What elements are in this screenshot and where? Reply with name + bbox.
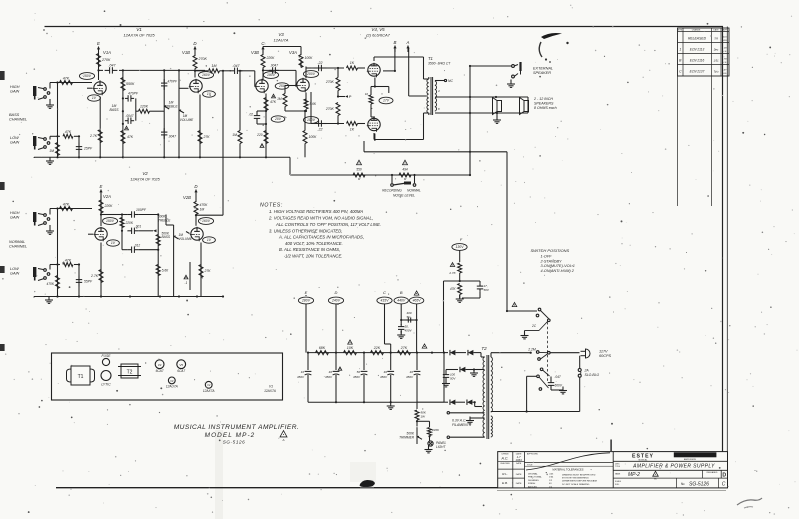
wire ch1 input bus bbox=[57, 83, 59, 158]
svg-text:400 VOLT, 10% TOLERANCE.: 400 VOLT, 10% TOLERANCE. bbox=[285, 241, 343, 246]
transformer T2 core bbox=[487, 355, 489, 439]
svg-text:1M: 1M bbox=[200, 208, 205, 212]
svg-text:12AU7A: 12AU7A bbox=[274, 38, 289, 43]
label 117V 60CPS bbox=[599, 350, 611, 359]
tube V5 chassis bbox=[177, 360, 186, 373]
svg-text:40: 40 bbox=[384, 370, 388, 374]
wire top border line bbox=[45, 26, 724, 28]
svg-text:220K: 220K bbox=[266, 56, 276, 60]
svg-text:NORMAL: NORMAL bbox=[9, 240, 25, 244]
voltage oval D 240V bbox=[328, 297, 343, 353]
label high gain ch2 bbox=[10, 211, 20, 220]
wire T2 filament tap2 bbox=[447, 436, 484, 438]
ground ch1 rail bbox=[34, 157, 54, 164]
svg-text:240V: 240V bbox=[331, 299, 341, 303]
node F letter bbox=[460, 238, 463, 242]
wire ch2 row1 to treble bbox=[139, 214, 159, 216]
resistor 27K rail bbox=[398, 346, 411, 355]
svg-text:BY ESTEY ENGINEERING: BY ESTEY ENGINEERING bbox=[562, 478, 589, 480]
svg-text:415V: 415V bbox=[381, 299, 390, 303]
tube V2B bbox=[183, 195, 203, 241]
triangle note sw bbox=[512, 302, 517, 306]
svg-text:470PF: 470PF bbox=[168, 80, 178, 84]
svg-text:MATERIAL TOLERANCES: MATERIAL TOLERANCES bbox=[553, 467, 584, 471]
capacitor .22 lower bbox=[314, 120, 327, 131]
node C letter bbox=[383, 290, 386, 295]
scan left edge marks bbox=[0, 71, 5, 351]
voltage oval B 440V bbox=[394, 297, 408, 324]
triangle note tone bbox=[125, 126, 129, 130]
svg-text:2.7K: 2.7K bbox=[89, 134, 98, 138]
tube V4 V5 header bbox=[366, 27, 391, 38]
svg-text:DATE: DATE bbox=[516, 462, 522, 465]
resistor 2.7K V2A cathode bbox=[90, 270, 103, 283]
resistor 1M V3 grid bbox=[232, 70, 242, 158]
ground filament center tap bbox=[466, 417, 485, 424]
svg-text:AMPLIFIERS: AMPLIFIERS bbox=[684, 458, 697, 461]
svg-text:3. UNLESS OTHERWISE INDICATED: 3. UNLESS OTHERWISE INDICATED, bbox=[269, 228, 343, 233]
svg-text:LS: LS bbox=[724, 51, 727, 53]
svg-text:V3A: V3A bbox=[289, 50, 297, 55]
title block grid bbox=[498, 452, 728, 488]
resistor 27K V1B cathode bbox=[198, 131, 210, 144]
wire V5 plate to T1 bbox=[374, 113, 429, 140]
svg-text:BASS: BASS bbox=[109, 108, 119, 112]
wire bias feed from rail bbox=[444, 281, 460, 353]
label 2C bbox=[531, 324, 537, 328]
svg-text:V4: V4 bbox=[158, 363, 162, 367]
jack J2 low gain bbox=[33, 136, 50, 150]
svg-text:EXTERNAL: EXTERNAL bbox=[533, 67, 553, 71]
capacitor .0047 treble bottom bbox=[161, 128, 176, 139]
svg-text:12AU7A: 12AU7A bbox=[166, 385, 178, 389]
label bass channel bbox=[9, 113, 27, 122]
svg-text:DO NOT SCALE DRAWING: DO NOT SCALE DRAWING bbox=[562, 483, 590, 486]
wire V3B plate junction bbox=[262, 68, 264, 80]
label T1 value bbox=[428, 56, 451, 66]
wire volume to V1B grid bbox=[179, 87, 189, 89]
svg-text:130V: 130V bbox=[456, 245, 465, 249]
resistor 5.6K V3A cathode bbox=[304, 99, 317, 111]
switch pole mains bbox=[536, 351, 550, 361]
transformer T2 label bbox=[481, 346, 487, 351]
wire feedback lower line bbox=[290, 174, 470, 176]
node D supply V2B bbox=[194, 184, 198, 196]
wire T1 NC tap bbox=[435, 79, 453, 83]
svg-text:SG-5126: SG-5126 bbox=[689, 481, 709, 487]
wire V1B cathode bbox=[199, 95, 201, 158]
svg-text:2 - 12 INCH: 2 - 12 INCH bbox=[533, 97, 553, 101]
svg-text:60CPS: 60CPS bbox=[599, 354, 611, 358]
scan line under title block bbox=[497, 490, 726, 492]
svg-text:27K: 27K bbox=[204, 269, 212, 273]
svg-text:494: 494 bbox=[402, 168, 408, 172]
svg-text:NOTES:: NOTES: bbox=[260, 203, 283, 209]
scan mark bottom right bbox=[737, 498, 762, 508]
svg-text:V3: V3 bbox=[278, 32, 284, 37]
svg-text:3-ON(MUTE)-VOL 1: 3-ON(MUTE)-VOL 1 bbox=[541, 264, 575, 268]
ground switch bbox=[521, 331, 540, 339]
svg-text:ES: ES bbox=[724, 73, 727, 75]
label low gain ch2 bbox=[10, 267, 20, 276]
svg-text:120K: 120K bbox=[140, 105, 149, 109]
svg-text:1K: 1K bbox=[350, 61, 355, 65]
wire V4 cathode stub bbox=[374, 78, 389, 94]
capacitor .1 V2B bypass bbox=[184, 262, 190, 290]
fuse chassis bbox=[101, 354, 111, 366]
svg-text:600V: 600V bbox=[555, 384, 563, 388]
capacitor .047 ch1 bbox=[105, 64, 118, 74]
svg-text:LOW: LOW bbox=[10, 267, 19, 271]
transformer T1 chassis bbox=[67, 366, 95, 385]
speaker SP1 bbox=[493, 98, 502, 115]
voltage oval 150V V1A bbox=[79, 73, 94, 80]
svg-text:(2) 6L6/6CA7: (2) 6L6/6CA7 bbox=[366, 33, 391, 38]
node D supply V1B bbox=[193, 41, 197, 53]
voltage oval A 465V bbox=[409, 297, 423, 353]
node J1 wire junction bbox=[56, 81, 58, 83]
svg-text:V2A: V2A bbox=[103, 194, 111, 199]
svg-text:TITLE: TITLE bbox=[615, 466, 621, 468]
svg-text:P: P bbox=[349, 95, 352, 99]
tube V1A bbox=[93, 50, 111, 95]
wire V3A cathode bbox=[305, 93, 307, 113]
wire treble column bbox=[163, 69, 165, 157]
node hum junction bbox=[416, 420, 418, 422]
svg-text:C: C bbox=[722, 482, 726, 488]
svg-text:47K: 47K bbox=[63, 77, 70, 81]
resistor 47K V3B cathode bbox=[264, 98, 277, 111]
svg-text:1/64: 1/64 bbox=[549, 477, 554, 479]
svg-text:HIGH: HIGH bbox=[10, 85, 20, 89]
svg-text:1V: 1V bbox=[207, 92, 212, 96]
transformer T1 primary bbox=[427, 77, 429, 115]
wire tone loop right bbox=[135, 98, 137, 120]
svg-text:V1: V1 bbox=[269, 385, 273, 389]
svg-text:22K: 22K bbox=[373, 346, 381, 350]
wire cathode rail jog bbox=[289, 157, 291, 175]
wire F stem bbox=[459, 251, 461, 263]
wire V2A plate line bbox=[100, 213, 117, 215]
potentiometer 1M volume ch2 bbox=[166, 215, 193, 242]
svg-text:450V: 450V bbox=[353, 375, 361, 379]
svg-text:SLO-BLO: SLO-BLO bbox=[585, 373, 600, 377]
svg-text:D: D bbox=[193, 41, 197, 46]
wire E to V2A plate bbox=[100, 196, 102, 226]
tube V3 header bbox=[274, 32, 289, 43]
svg-text:100K: 100K bbox=[305, 56, 314, 60]
diode rectifier D4 bbox=[444, 399, 460, 404]
svg-text:47K: 47K bbox=[127, 135, 134, 139]
resistor 220K tone ch2 bbox=[120, 218, 134, 228]
svg-text:20V: 20V bbox=[274, 117, 282, 121]
resistor 120K tone bbox=[136, 105, 164, 114]
svg-text:V3B: V3B bbox=[251, 50, 259, 55]
svg-text:SPEAKERS: SPEAKERS bbox=[534, 102, 554, 106]
wire V1A plate coupling line bbox=[97, 69, 123, 71]
wire switch ground link bbox=[525, 330, 540, 332]
svg-text:NOISE LEVEL: NOISE LEVEL bbox=[393, 194, 415, 198]
label 1M treble pot bbox=[164, 101, 178, 109]
resistor 100K V3A tail bbox=[303, 110, 317, 157]
svg-text:TRIMMER: TRIMMER bbox=[399, 436, 415, 440]
diode rectifier D3 bbox=[446, 367, 481, 372]
capacitor .02 V3 bbox=[249, 110, 268, 125]
svg-text:A: A bbox=[406, 40, 410, 45]
capacitor .047 to V3 bbox=[230, 64, 243, 74]
ground bias bbox=[456, 295, 464, 302]
tube V1 chassis bbox=[264, 385, 276, 394]
switch arm upper bbox=[539, 319, 550, 331]
svg-text:27K: 27K bbox=[400, 346, 408, 350]
tube V4 output bbox=[367, 63, 380, 77]
scan small mark top left bbox=[43, 29, 48, 34]
svg-text:LS: LS bbox=[724, 62, 727, 64]
svg-text:RELEASED: RELEASED bbox=[707, 471, 718, 474]
svg-text:220K: 220K bbox=[104, 204, 114, 208]
capacitor filter C5 bbox=[406, 353, 420, 403]
wire ch2 volume column bbox=[173, 225, 175, 297]
wire J2 to bus bbox=[50, 136, 60, 139]
node C supply V3 bbox=[261, 41, 265, 53]
resistor 10 ohm cathode bbox=[365, 87, 375, 112]
svg-text:V1B: V1B bbox=[182, 50, 190, 55]
svg-text:450V: 450V bbox=[325, 375, 333, 379]
svg-text:2A: 2A bbox=[584, 369, 590, 373]
wire plug to fuse bbox=[579, 356, 581, 369]
svg-text:220K: 220K bbox=[431, 428, 440, 432]
voltage oval F 130V bbox=[452, 244, 467, 251]
svg-text:E: E bbox=[305, 290, 308, 295]
ground speakers bbox=[493, 113, 501, 123]
svg-text:T2: T2 bbox=[127, 370, 133, 376]
svg-text:47K: 47K bbox=[63, 203, 70, 207]
label normal channel bbox=[9, 240, 27, 249]
svg-text:BASS: BASS bbox=[162, 235, 171, 239]
svg-text:4: 4 bbox=[438, 89, 440, 93]
wire ch2 row2 arrow bbox=[139, 229, 157, 232]
wire V3A output upper bbox=[306, 67, 344, 69]
wire ch2 volume to V2B grid bbox=[186, 232, 190, 234]
svg-text:200V: 200V bbox=[306, 72, 316, 76]
svg-text:.22: .22 bbox=[317, 61, 322, 65]
svg-text:550K: 550K bbox=[126, 82, 135, 86]
drawing title text bbox=[174, 424, 300, 445]
resistor 68K rail bbox=[316, 346, 329, 355]
label 2.2M bbox=[527, 348, 536, 352]
svg-text:465V: 465V bbox=[413, 299, 422, 303]
wire right border inner line bbox=[726, 27, 728, 452]
svg-text:DRAWING MUST BE APPROVED: DRAWING MUST BE APPROVED bbox=[562, 473, 596, 476]
wire B+ rail bbox=[308, 352, 444, 354]
node A letter triangle bbox=[414, 291, 419, 295]
ground jack J1 bbox=[46, 99, 54, 108]
svg-text:1W: 1W bbox=[421, 415, 427, 419]
resistor 47K bias bbox=[450, 284, 462, 299]
wire right border line bbox=[722, 27, 724, 452]
svg-text:ECN 2137: ECN 2137 bbox=[690, 70, 705, 74]
svg-text:3500· 8/4Ω CT: 3500· 8/4Ω CT bbox=[428, 62, 451, 66]
diode rectifier D2 bbox=[462, 350, 481, 357]
svg-text:.005: .005 bbox=[549, 474, 554, 476]
svg-text:10: 10 bbox=[365, 92, 369, 96]
svg-text:50V: 50V bbox=[450, 377, 456, 381]
svg-text:6.3V A.C.: 6.3V A.C. bbox=[452, 419, 466, 423]
wire ch1 ground rail bbox=[34, 156, 290, 158]
svg-text:160V: 160V bbox=[202, 219, 211, 223]
svg-text:12AX7A OF 7025: 12AX7A OF 7025 bbox=[123, 33, 155, 38]
voltage oval 20V V3B bbox=[271, 116, 285, 122]
wire speaker sw feed bbox=[506, 310, 537, 312]
potentiometer 1M volume ch1 bbox=[179, 109, 194, 122]
svg-text:47K: 47K bbox=[65, 130, 72, 134]
lytic capacitor chassis bbox=[101, 371, 111, 387]
wire T2 HV top bbox=[481, 356, 485, 358]
svg-text:8 OHMS each: 8 OHMS each bbox=[534, 106, 557, 110]
svg-text:SCALE: SCALE bbox=[615, 480, 622, 483]
plug 117V bbox=[580, 349, 590, 358]
svg-text:220K: 220K bbox=[125, 221, 134, 225]
svg-text:4-ON(ANTI-HUM) 2: 4-ON(ANTI-HUM) 2 bbox=[541, 269, 575, 273]
voltage oval E 280V bbox=[298, 297, 313, 353]
resistor 220K V2A plate bbox=[99, 200, 113, 213]
svg-text:.047: .047 bbox=[233, 64, 241, 68]
tube V1 header bbox=[123, 27, 155, 38]
svg-text:6CA7: 6CA7 bbox=[177, 369, 185, 373]
svg-text:W.E: W.E bbox=[723, 40, 728, 42]
svg-text:220: 220 bbox=[256, 133, 263, 137]
resistor 47K tone lower bbox=[121, 131, 134, 144]
resistor 220K V3B plate bbox=[261, 55, 275, 68]
wire V4 plate to T1 bbox=[374, 57, 429, 79]
resistor 550 feedback bbox=[353, 160, 365, 181]
voltage oval 25V V3B bbox=[275, 83, 289, 89]
transformer T2 secondary winding bbox=[483, 357, 485, 437]
resistor 1M V1B coupling bbox=[209, 64, 232, 73]
wire cap column bbox=[74, 136, 79, 157]
svg-text:V1: V1 bbox=[136, 27, 142, 32]
svg-text:1M: 1M bbox=[277, 97, 282, 101]
svg-text:1M: 1M bbox=[232, 133, 237, 137]
capacitor 470PF tone loop bbox=[125, 92, 139, 102]
revision table bbox=[678, 28, 730, 76]
resistor 220 V3B bias bbox=[256, 131, 268, 144]
svg-text:V2: V2 bbox=[142, 171, 148, 176]
wire T2 primary top bbox=[491, 353, 531, 357]
wire ch2 middle column bbox=[157, 213, 159, 296]
svg-text:47K: 47K bbox=[450, 287, 457, 291]
svg-text:ECN 2116: ECN 2116 bbox=[690, 59, 705, 63]
resistor 2.7K bias bbox=[448, 263, 461, 281]
wire V1A cathode bbox=[99, 97, 101, 158]
potentiometer 500K trimmer bbox=[399, 421, 430, 444]
svg-text:270K: 270K bbox=[101, 58, 111, 62]
switch mechanical dashed link bbox=[546, 322, 548, 382]
svg-text:W: W bbox=[404, 177, 407, 181]
svg-text:6CA7: 6CA7 bbox=[156, 369, 164, 373]
svg-text:25PF: 25PF bbox=[83, 147, 93, 151]
svg-text:47K: 47K bbox=[270, 100, 277, 104]
wire V3B cathode bbox=[265, 94, 267, 158]
svg-text:2C: 2C bbox=[531, 324, 537, 328]
svg-text:V4, V5: V4, V5 bbox=[371, 27, 385, 32]
wire V2B cathode bbox=[200, 243, 202, 297]
label filaments bbox=[452, 419, 472, 428]
node lower diode junction bbox=[444, 353, 482, 407]
svg-text:50V: 50V bbox=[484, 288, 490, 292]
svg-text:270K: 270K bbox=[325, 80, 335, 84]
svg-text:GAIN: GAIN bbox=[10, 90, 20, 94]
svg-text:№: № bbox=[681, 482, 685, 486]
svg-text:100K: 100K bbox=[309, 135, 318, 139]
svg-text:CHANNEL: CHANNEL bbox=[9, 118, 27, 122]
wire T1 secondary low tap bbox=[435, 107, 528, 113]
transformer T1 secondary bbox=[435, 81, 437, 111]
wire feedback corner bbox=[469, 151, 471, 176]
svg-text:190V: 190V bbox=[267, 73, 276, 77]
resistor 470K ch2 bus bbox=[47, 276, 60, 289]
node noise switch taps bbox=[391, 174, 416, 176]
wire filter bottom rail bbox=[308, 401, 417, 403]
svg-text:CHANGE: CHANGE bbox=[692, 29, 701, 32]
svg-text:SWITCH POSITIONS: SWITCH POSITIONS bbox=[531, 248, 570, 253]
svg-text:C: C bbox=[679, 70, 682, 74]
tube V3A bbox=[289, 50, 309, 92]
svg-text:E.B.: E.B. bbox=[502, 481, 508, 485]
svg-text:550: 550 bbox=[356, 168, 362, 172]
svg-text:A.C.: A.C. bbox=[501, 457, 509, 461]
svg-text:1964: 1964 bbox=[515, 458, 522, 462]
resistor 470K V2B plate bbox=[194, 202, 208, 215]
wire V3A output lower bbox=[311, 92, 344, 124]
wire revision column left line bbox=[677, 76, 679, 206]
capacitor .001 ch2 loop bbox=[128, 224, 142, 234]
potentiometer treble wiper bbox=[164, 105, 169, 109]
svg-text:450V: 450V bbox=[297, 375, 305, 379]
wire T2 filament tap1 bbox=[447, 412, 484, 414]
label 500K treble ch2 bbox=[158, 215, 171, 223]
tube V2A bbox=[94, 194, 111, 241]
label low gain ch1 bbox=[10, 136, 20, 145]
transformer T1 core bbox=[431, 77, 433, 115]
svg-text:D: D bbox=[335, 290, 338, 295]
svg-text:TREBLE: TREBLE bbox=[158, 218, 171, 222]
tube V4 chassis bbox=[155, 360, 164, 373]
wire switch to plug bbox=[550, 352, 580, 354]
svg-text:.001: .001 bbox=[135, 224, 141, 228]
svg-text:1V: 1V bbox=[111, 241, 116, 245]
transformer T2 primary winding bbox=[491, 357, 493, 437]
svg-text:150V: 150V bbox=[83, 74, 92, 78]
switch positions note bbox=[531, 248, 575, 273]
svg-text:ANGLES: ANGLES bbox=[528, 485, 537, 488]
diode rectifier D1 bbox=[444, 350, 462, 355]
svg-text:W: W bbox=[358, 177, 361, 181]
svg-text:FINISH: FINISH bbox=[528, 483, 536, 485]
wire T1 secondary mid tap bbox=[435, 89, 528, 97]
wire T2 HV mid tap bbox=[476, 369, 485, 371]
svg-text:V1A: V1A bbox=[103, 50, 111, 55]
ground external speaker bbox=[507, 80, 515, 88]
wire tone stack left column bbox=[122, 70, 124, 157]
svg-text:1: 1 bbox=[679, 48, 681, 52]
node B cap junction bbox=[400, 319, 418, 321]
svg-text:A. ALL CAPACITANCES IN MICROFA: A. ALL CAPACITANCES IN MICROFARADS, bbox=[278, 235, 364, 240]
tube V3 chassis bbox=[166, 377, 178, 389]
chassis layout box bbox=[52, 353, 283, 400]
jack J1 high gain bbox=[33, 86, 50, 100]
node ch2 stack top bbox=[121, 213, 123, 215]
